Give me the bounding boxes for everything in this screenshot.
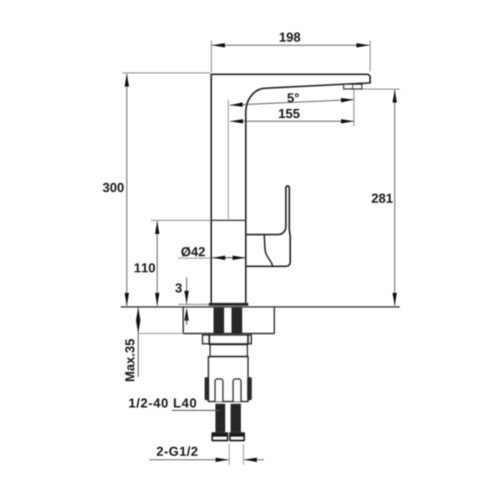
washer left edge mark	[208, 335, 210, 343]
faucet body and spout outline	[211, 74, 370, 303]
label 110	[135, 263, 155, 272]
dimension 155 line	[230, 120, 354, 122]
extension line 300 top	[122, 72, 210, 74]
left hose end fitting	[211, 432, 228, 441]
threaded shank left wall	[214, 308, 225, 334]
label 2-G1/2	[157, 446, 198, 456]
left fitting stripe	[213, 437, 226, 439]
base flange plate	[209, 303, 249, 306]
dimension 110 line	[156, 221, 158, 306]
label diameter 42	[181, 247, 205, 257]
left supply hose	[215, 404, 225, 433]
label 281	[372, 194, 393, 203]
dimension 198 right arrow	[356, 43, 369, 47]
dimension G1/2 left line	[150, 459, 229, 461]
mounting nut block	[209, 357, 248, 402]
right stud slot	[233, 379, 241, 402]
shank cylinder	[210, 345, 247, 356]
dimension 300 line	[126, 74, 128, 306]
Max.35 up arrow	[136, 307, 140, 320]
right hose end fitting	[229, 432, 245, 441]
dimension 110 bottom arrow	[155, 293, 159, 306]
label 198	[280, 33, 300, 42]
countertop surface line	[121, 306, 400, 308]
dimension dia42 right arrow	[233, 256, 246, 260]
aerator at spout tip	[344, 84, 362, 89]
dimension G1/2 right line	[244, 459, 264, 461]
dimension 300 top arrow	[125, 74, 129, 87]
dimension G1/2 left arrow	[216, 458, 229, 462]
extension line 198 right	[369, 41, 371, 72]
dimension dia42 left arrow	[212, 256, 225, 260]
countertop slab left edge	[182, 307, 184, 333]
right fitting stripe	[231, 437, 243, 439]
extension line G1/2 left	[228, 444, 230, 465]
dimension 281 line	[394, 90, 396, 306]
extension line 110 top	[151, 219, 212, 221]
dimension 5deg left arrow	[230, 102, 243, 106]
leader line for 1/2-40 L40	[172, 409, 220, 411]
dimension dia42 line	[212, 257, 245, 259]
nut left ear	[205, 377, 210, 400]
extension line 3 top	[178, 303, 208, 305]
handle seam line	[264, 235, 272, 266]
nut right ear	[247, 377, 252, 400]
body seam line at 110 level	[211, 219, 246, 221]
dimension 155 left arrow	[230, 119, 243, 123]
washer under counter	[203, 335, 252, 344]
dimension 155 right arrow	[341, 119, 354, 123]
dimension 5deg right arrow	[341, 98, 354, 102]
dimension 300 bottom arrow	[125, 293, 129, 306]
label 3	[175, 283, 181, 292]
label 5 degrees	[287, 93, 298, 102]
dimension 3 lower shaft	[186, 318, 188, 325]
aerator divider	[352, 84, 354, 89]
extension line 198 left	[210, 41, 212, 73]
threaded shank right wall	[232, 308, 243, 334]
extension line G1/2 right	[242, 444, 244, 465]
cylinder bottom edge	[209, 356, 248, 358]
right supply hose	[231, 404, 241, 433]
label Max.35	[125, 339, 134, 381]
extension line 281 top	[362, 88, 400, 90]
leader line for dia 42	[178, 257, 212, 259]
countertop slab bottom line	[183, 333, 274, 335]
dimension 3 up arrow below counter	[184, 308, 188, 321]
washer bottom ring	[209, 343, 249, 345]
centerline of faucet body	[227, 100, 229, 220]
dimension 5deg line	[230, 100, 354, 106]
label 155	[279, 109, 300, 118]
Max.35 dimension line	[137, 307, 139, 376]
dimension 198 left arrow	[212, 43, 225, 47]
washer right edge mark	[247, 335, 249, 343]
dimension 110 top arrow	[155, 221, 159, 234]
Max.35 down arrow	[136, 320, 140, 333]
dimension 198 line	[212, 44, 370, 46]
countertop slab right edge	[273, 307, 275, 333]
label 1/2-40 L40	[129, 398, 196, 408]
dimension 281 top arrow	[393, 90, 397, 103]
dimension 281 bottom arrow	[393, 293, 397, 306]
dimension G1/2 right arrow	[244, 458, 257, 462]
handle base outline	[246, 186, 291, 266]
extension line Max.35 bottom	[138, 333, 183, 335]
dimension 3 upper line	[186, 277, 188, 304]
label 300	[103, 183, 124, 192]
left stud slot	[215, 379, 223, 402]
extension line spout tip	[353, 90, 355, 127]
dimension 3 down arrow	[184, 291, 188, 304]
